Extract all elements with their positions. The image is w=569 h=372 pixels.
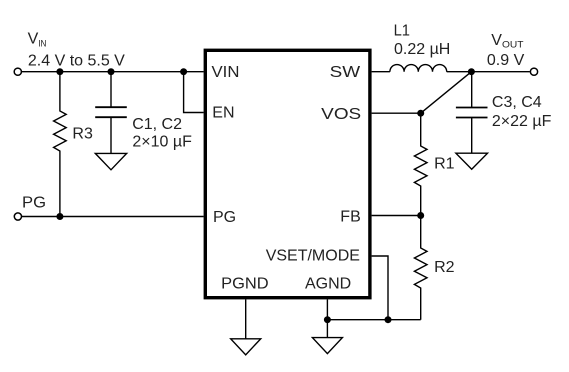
svg-text:R1: R1	[434, 155, 455, 172]
svg-text:EN: EN	[212, 105, 234, 122]
capacitor C1	[110, 72, 112, 108]
resistor R1	[414, 113, 427, 215]
svg-text:PGND: PGND	[221, 276, 269, 293]
node VIN terminal	[14, 68, 21, 75]
wire SW to L1	[372, 71, 390, 73]
wire FB	[372, 215, 421, 217]
svg-text:R3: R3	[72, 125, 93, 142]
node junction B (C1 top)	[108, 68, 115, 75]
inductor L1	[390, 65, 447, 72]
svg-text:2×10 µF: 2×10 µF	[132, 133, 192, 150]
wire AGND	[326, 299, 328, 337]
IC U1 (regulator body)	[205, 50, 370, 297]
svg-text:L1: L1	[394, 23, 410, 40]
ground (C1)	[95, 153, 126, 169]
resistor R3	[54, 72, 67, 217]
ground (AGND)	[312, 338, 342, 354]
node junction I (AGND)	[324, 316, 331, 323]
svg-text:C3, C4: C3, C4	[492, 94, 542, 111]
capacitor C3	[471, 72, 473, 108]
svg-text:SW: SW	[330, 64, 362, 81]
svg-text:VIN: VIN	[212, 64, 240, 81]
wire VIN rail	[22, 71, 204, 73]
svg-text:R2: R2	[434, 259, 455, 276]
node junction D (PG/R3)	[56, 213, 63, 220]
wire L1 to VOUT terminal	[447, 71, 530, 73]
svg-text:VOS: VOS	[321, 106, 361, 123]
resistor R2	[414, 216, 427, 320]
svg-text:AGND: AGND	[305, 276, 351, 293]
wire PGND	[245, 299, 247, 338]
svg-text:C1, C2: C1, C2	[132, 116, 182, 133]
svg-text:PG: PG	[22, 195, 46, 212]
svg-text:VSET/MODE: VSET/MODE	[266, 248, 360, 265]
node junction F (VOS/R1)	[417, 110, 424, 117]
node junction E (SW/VOS/C3)	[468, 68, 475, 75]
wire diagonal VOS sense	[421, 72, 472, 114]
svg-text:PG: PG	[213, 209, 236, 226]
node junction G (FB/R1/R2)	[417, 212, 424, 219]
wire VOS	[372, 112, 421, 114]
ground (C3)	[456, 153, 488, 169]
wire bottom rail (R2 to AGND)	[327, 319, 420, 321]
svg-text:2×22 µF: 2×22 µF	[492, 113, 552, 130]
wire PG rail	[22, 216, 204, 218]
svg-text:0.22 µH: 0.22 µH	[394, 41, 450, 58]
svg-text:FB: FB	[340, 209, 360, 226]
node junction H (VSET tap)	[385, 316, 392, 323]
node VOUT terminal	[530, 68, 537, 75]
node PG terminal	[14, 213, 21, 220]
node junction A (R3 top)	[56, 68, 63, 75]
svg-text:0.9 V: 0.9 V	[487, 52, 525, 69]
node junction C (EN tap)	[180, 68, 187, 75]
wire VSET/MODE tap	[372, 256, 388, 320]
wire EN tap	[184, 72, 204, 113]
ground (PGND)	[231, 339, 261, 355]
svg-text:2.4 V to 5.5 V: 2.4 V to 5.5 V	[28, 52, 125, 69]
